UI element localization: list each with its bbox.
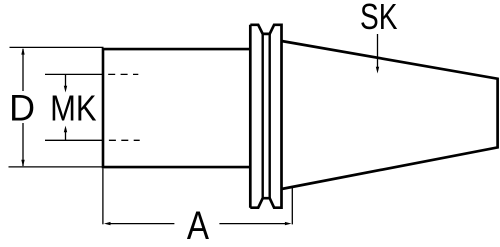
D top extension line [10, 46, 104, 48]
D dimension line lower segment [22, 123, 24, 166]
SK arrow line [377, 34, 379, 68]
svg-text:MK: MK [50, 89, 97, 129]
D dimension line upper segment [22, 49, 24, 91]
D bottom extension line [9, 166, 104, 168]
MK bottom extension line [45, 139, 103, 141]
hidden bore dashed line top [108, 73, 138, 75]
MK lower arrow line [65, 132, 67, 141]
hidden bore dashed line bottom [109, 139, 140, 141]
svg-text:D: D [9, 87, 35, 129]
A arrow left [104, 222, 111, 225]
body cylinder outline [103, 49, 250, 167]
MK lower arrow (points up) [64, 126, 67, 133]
MK top extension line [45, 73, 103, 75]
A dimension line right segment [219, 223, 285, 225]
groove bottom left line [262, 34, 264, 198]
A extension line right [291, 188, 293, 225]
MK upper arrow (points down) [64, 86, 67, 93]
A arrow right [285, 222, 292, 225]
MK upper arrow line [65, 75, 67, 87]
cone (SK taper) outline [282, 41, 498, 189]
SK arrow (points down) [376, 67, 379, 74]
svg-text:SK: SK [360, 0, 398, 37]
A dimension line left segment [109, 223, 174, 225]
D arrow up [21, 48, 24, 55]
A extension line left [102, 169, 104, 225]
D arrow down [21, 160, 24, 167]
flange outline [250, 25, 281, 208]
svg-text:A: A [187, 203, 210, 247]
groove bottom right line [269, 34, 271, 198]
